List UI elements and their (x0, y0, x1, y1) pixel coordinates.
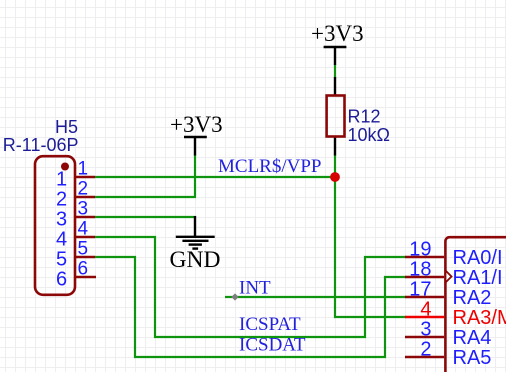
svg-text:RA4: RA4 (453, 327, 492, 349)
svg-text:RA3/M: RA3/M (453, 307, 506, 329)
svg-text:+3V3: +3V3 (170, 112, 223, 137)
svg-text:17: 17 (409, 279, 431, 301)
svg-text:2: 2 (56, 189, 67, 211)
svg-text:INT: INT (239, 278, 271, 299)
svg-text:5: 5 (78, 239, 89, 260)
svg-text:5: 5 (56, 249, 67, 271)
svg-text:RA0/I: RA0/I (453, 247, 503, 269)
svg-text:1: 1 (78, 159, 89, 180)
svg-text:RA2: RA2 (453, 287, 492, 309)
svg-text:4: 4 (420, 299, 431, 321)
svg-text:2: 2 (78, 179, 89, 200)
svg-text:3: 3 (56, 209, 67, 231)
svg-text:2: 2 (420, 339, 431, 361)
svg-text:4: 4 (78, 219, 89, 240)
svg-text:H5: H5 (55, 117, 78, 137)
svg-text:RA5: RA5 (453, 347, 492, 369)
svg-text:1: 1 (56, 169, 67, 191)
svg-text:10kΩ: 10kΩ (348, 125, 390, 145)
svg-text:R12: R12 (348, 107, 381, 127)
svg-text:3: 3 (420, 319, 431, 341)
svg-text:MCLR$/VPP: MCLR$/VPP (218, 156, 321, 177)
svg-text:ICSDAT: ICSDAT (239, 335, 306, 356)
svg-text:ICSPAT: ICSPAT (239, 314, 301, 335)
svg-text:GND: GND (170, 247, 221, 273)
svg-text:R-11-06P: R-11-06P (3, 135, 79, 155)
svg-text:+3V3: +3V3 (311, 21, 364, 46)
svg-text:4: 4 (56, 229, 67, 251)
svg-text:18: 18 (409, 259, 431, 281)
svg-text:19: 19 (409, 239, 431, 261)
svg-text:RA1/I: RA1/I (453, 267, 503, 289)
svg-text:3: 3 (78, 199, 89, 220)
svg-text:6: 6 (78, 259, 89, 280)
svg-text:6: 6 (56, 269, 67, 291)
